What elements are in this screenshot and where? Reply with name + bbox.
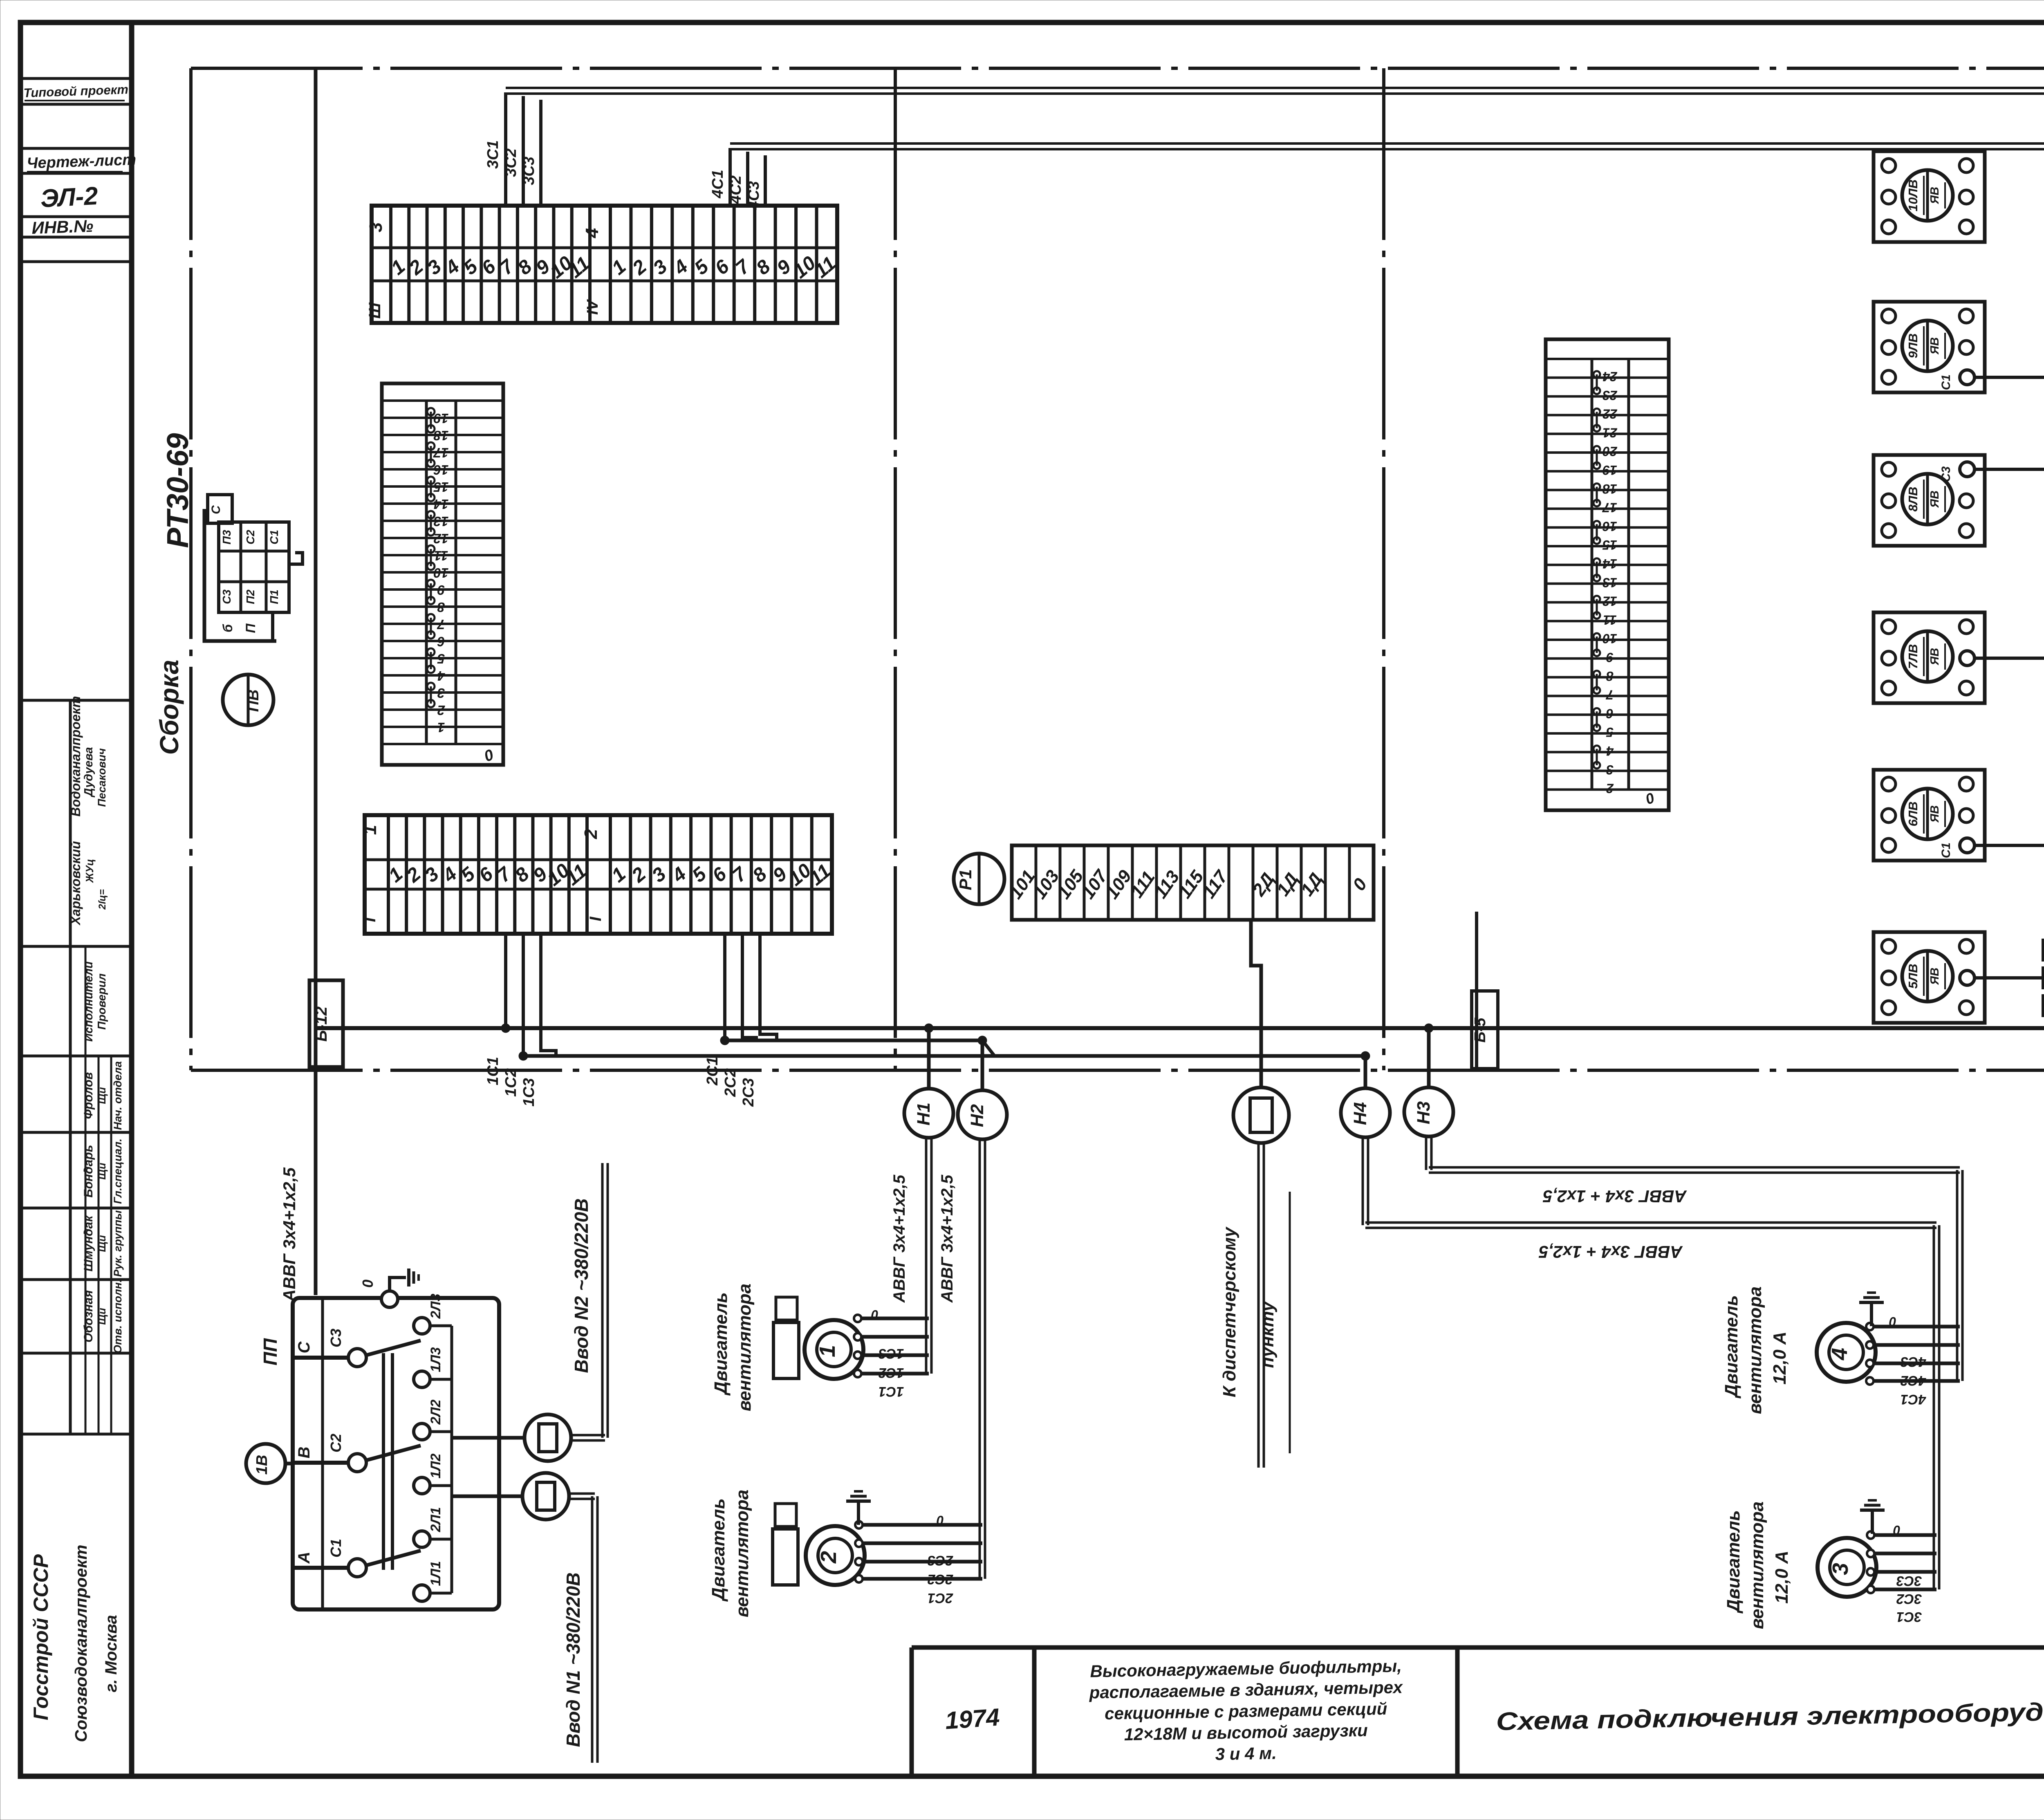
svg-text:2С3: 2С3 [740, 1078, 757, 1107]
svg-text:18: 18 [1602, 482, 1617, 496]
svg-text:6: 6 [1606, 706, 1614, 721]
svg-text:Отв. исполн.: Отв. исполн. [112, 1279, 124, 1353]
svg-text:5ЛВ: 5ЛВ [1906, 964, 1920, 989]
svg-text:9: 9 [437, 583, 445, 598]
svg-text:С: С [295, 1341, 313, 1353]
svg-text:АВВГ 3х4 + 1х2,5: АВВГ 3х4 + 1х2,5 [1539, 1242, 1683, 1262]
svg-text:вентилятора: вентилятора [732, 1490, 752, 1618]
svg-text:IV: IV [584, 299, 601, 315]
svg-text:20: 20 [1602, 444, 1618, 459]
svg-text:10: 10 [1602, 631, 1617, 646]
svg-text:4: 4 [437, 668, 445, 684]
svg-text:ЖУц: ЖУц [83, 859, 96, 883]
svg-text:3: 3 [437, 686, 445, 701]
svg-text:4: 4 [1827, 1348, 1852, 1361]
svg-text:С2: С2 [244, 530, 257, 545]
svg-text:Обозная: Обозная [82, 1290, 95, 1343]
svg-text:2С1: 2С1 [928, 1590, 953, 1606]
svg-text:С2: С2 [327, 1434, 344, 1452]
svg-text:Б-5: Б-5 [1472, 1018, 1489, 1043]
svg-text:Щи: Щи [96, 1163, 108, 1180]
svg-text:2С2: 2С2 [722, 1068, 739, 1097]
svg-text:3: 3 [1606, 762, 1614, 777]
svg-text:Гл.специал.: Гл.специал. [112, 1139, 124, 1204]
svg-text:Б-12: Б-12 [312, 1006, 330, 1042]
svg-text:2С3: 2С3 [928, 1553, 953, 1568]
svg-text:Проверил: Проверил [95, 973, 108, 1030]
svg-text:П2: П2 [244, 589, 257, 604]
svg-text:вентилятора: вентилятора [735, 1284, 755, 1412]
svg-text:19: 19 [1602, 463, 1617, 477]
svg-text:Ввод N2 ~380/220В: Ввод N2 ~380/220В [571, 1198, 592, 1373]
svg-text:Р1: Р1 [956, 869, 975, 890]
svg-text:АВВГ 3х4+1х2,5: АВВГ 3х4+1х2,5 [280, 1167, 299, 1302]
svg-text:Шмундак: Шмундак [82, 1215, 95, 1272]
svg-text:17: 17 [1602, 500, 1617, 515]
svg-text:19: 19 [433, 411, 448, 426]
svg-text:Госстрой СССР: Госстрой СССР [29, 1554, 52, 1720]
svg-text:Двигатель: Двигатель [711, 1292, 731, 1396]
svg-text:4С2: 4С2 [1901, 1373, 1926, 1388]
svg-text:АВВГ 3х4+1х2,5: АВВГ 3х4+1х2,5 [938, 1174, 956, 1303]
svg-text:24: 24 [1602, 369, 1618, 384]
svg-text:11: 11 [434, 548, 448, 563]
svg-text:7: 7 [1605, 688, 1614, 702]
svg-text:АВВГ 3х4+1х2,5: АВВГ 3х4+1х2,5 [890, 1174, 908, 1303]
svg-text:б: б [220, 624, 235, 632]
svg-text:ЭЛ-2: ЭЛ-2 [40, 182, 99, 213]
svg-text:3: 3 [1828, 1563, 1853, 1575]
svg-text:1: 1 [815, 1345, 840, 1357]
svg-text:1974: 1974 [944, 1703, 1001, 1734]
svg-text:1С2: 1С2 [879, 1365, 904, 1381]
svg-text:15: 15 [433, 480, 448, 495]
svg-text:П3: П3 [220, 530, 233, 545]
svg-text:С1: С1 [327, 1539, 344, 1558]
svg-text:С: С [209, 505, 223, 514]
svg-text:13: 13 [434, 514, 449, 529]
svg-text:12: 12 [1602, 594, 1617, 609]
svg-text:8ЛВ: 8ЛВ [1906, 487, 1920, 512]
svg-text:Нач. отдела: Нач. отдела [112, 1061, 124, 1130]
svg-text:ЯВ: ЯВ [1928, 491, 1941, 508]
svg-text:2С2: 2С2 [928, 1571, 953, 1587]
svg-text:5: 5 [1606, 725, 1614, 740]
svg-text:3 и 4 м.: 3 и 4 м. [1215, 1744, 1277, 1764]
svg-text:3С1: 3С1 [1896, 1609, 1922, 1625]
svg-text:П1: П1 [268, 589, 280, 604]
svg-text:0: 0 [937, 1513, 944, 1528]
svg-text:1Л3: 1Л3 [428, 1347, 444, 1372]
svg-text:Водоканалпроект: Водоканалпроект [68, 696, 83, 817]
svg-text:3С3: 3С3 [520, 157, 538, 185]
svg-text:2: 2 [581, 829, 601, 839]
svg-text:4С3: 4С3 [1901, 1354, 1926, 1369]
svg-text:2С1: 2С1 [704, 1057, 721, 1086]
svg-text:8: 8 [437, 600, 445, 615]
svg-text:0: 0 [1893, 1523, 1901, 1538]
svg-text:Ш: Ш [366, 303, 384, 319]
svg-text:1Л1: 1Л1 [428, 1561, 444, 1586]
svg-text:АВВГ 3х4 + 1х2,5: АВВГ 3х4 + 1х2,5 [1543, 1187, 1687, 1206]
svg-text:14: 14 [1602, 556, 1617, 571]
svg-text:7ЛВ: 7ЛВ [1906, 644, 1920, 669]
svg-text:Щи: Щи [96, 1087, 108, 1104]
svg-text:6: 6 [437, 634, 445, 649]
svg-text:7: 7 [437, 617, 445, 632]
svg-text:4С1: 4С1 [709, 170, 726, 199]
svg-text:21: 21 [1602, 425, 1618, 440]
svg-text:2ſц=: 2ſц= [97, 889, 108, 910]
svg-text:Щи: Щи [96, 1308, 108, 1325]
svg-text:23: 23 [1602, 388, 1618, 403]
svg-text:ЯВ: ЯВ [1928, 805, 1941, 823]
svg-text:С1: С1 [1939, 843, 1953, 858]
svg-text:П: П [243, 623, 258, 633]
svg-text:1С1: 1С1 [484, 1057, 502, 1085]
svg-text:2Л3: 2Л3 [428, 1293, 444, 1319]
svg-text:1С3: 1С3 [520, 1078, 538, 1107]
svg-text:Бондарь: Бондарь [82, 1145, 95, 1197]
svg-text:9ЛВ: 9ЛВ [1906, 334, 1920, 359]
svg-text:3: 3 [366, 222, 386, 232]
svg-text:12,0 А: 12,0 А [1770, 1331, 1790, 1385]
svg-text:ЯВ: ЯВ [1928, 648, 1941, 666]
svg-text:1С2: 1С2 [502, 1068, 520, 1097]
svg-text:Ввод N1 ~380/220В: Ввод N1 ~380/220В [563, 1572, 584, 1747]
svg-text:вентилятора: вентилятора [1747, 1502, 1767, 1629]
svg-text:Рук. группы: Рук. группы [112, 1210, 124, 1277]
svg-text:18: 18 [433, 428, 448, 443]
svg-text:22: 22 [1602, 407, 1618, 421]
svg-text:РТ30-69: РТ30-69 [161, 433, 195, 548]
svg-text:3С2: 3С2 [1896, 1591, 1922, 1607]
svg-text:9: 9 [1606, 650, 1614, 665]
svg-text:В: В [295, 1447, 313, 1459]
svg-text:3С3: 3С3 [1896, 1573, 1922, 1589]
svg-text:12: 12 [433, 531, 448, 546]
svg-text:Н2: Н2 [967, 1104, 987, 1127]
svg-text:6ЛВ: 6ЛВ [1906, 802, 1920, 827]
svg-text:ЯВ: ЯВ [1928, 187, 1941, 204]
svg-text:С1: С1 [268, 530, 280, 545]
svg-text:Двигатель: Двигатель [708, 1498, 728, 1602]
svg-text:К диспетчерскому: К диспетчерскому [1219, 1226, 1239, 1397]
svg-text:г. Москва: г. Москва [102, 1615, 120, 1692]
svg-text:14: 14 [434, 497, 449, 512]
svg-text:Щи: Щи [96, 1235, 108, 1252]
svg-text:I: I [587, 917, 605, 921]
svg-text:Сборка: Сборка [155, 660, 184, 755]
svg-text:Двигатель: Двигатель [1721, 1295, 1741, 1399]
svg-text:ПП: ПП [260, 1338, 281, 1365]
svg-text:10: 10 [433, 565, 448, 581]
svg-text:А: А [295, 1552, 313, 1564]
svg-text:С3: С3 [220, 589, 233, 604]
svg-text:С3: С3 [327, 1329, 344, 1347]
svg-text:1: 1 [437, 720, 445, 735]
svg-text:ЯВ: ЯВ [1928, 337, 1941, 355]
svg-text:ИНВ.№: ИНВ.№ [31, 216, 94, 238]
svg-text:ПВ: ПВ [245, 690, 262, 712]
svg-text:2Л2: 2Л2 [428, 1399, 444, 1425]
svg-text:ЯВ: ЯВ [1928, 968, 1941, 985]
svg-text:1Л2: 1Л2 [428, 1453, 444, 1478]
svg-text:0: 0 [871, 1307, 879, 1322]
svg-text:1С3: 1С3 [879, 1346, 904, 1361]
svg-text:Фролов: Фролов [82, 1072, 95, 1119]
svg-text:2: 2 [816, 1551, 841, 1564]
svg-text:11: 11 [1603, 612, 1616, 627]
svg-text:Н4: Н4 [1350, 1102, 1370, 1125]
svg-text:Н3: Н3 [1414, 1101, 1434, 1124]
svg-text:С1: С1 [1939, 374, 1953, 390]
svg-text:1С1: 1С1 [879, 1384, 904, 1399]
svg-text:1В: 1В [253, 1455, 271, 1475]
svg-text:Двигатель: Двигатель [1724, 1510, 1744, 1614]
svg-text:4: 4 [1606, 744, 1614, 758]
svg-text:0: 0 [1889, 1314, 1896, 1329]
svg-text:вентилятора: вентилятора [1745, 1287, 1765, 1414]
svg-text:16: 16 [433, 462, 448, 477]
svg-text:Дудуева: Дудуева [82, 747, 95, 798]
svg-text:пункту: пункту [1257, 1300, 1277, 1368]
svg-text:0: 0 [359, 1280, 376, 1288]
svg-text:Союзводоканалпроект: Союзводоканалпроект [72, 1544, 90, 1742]
svg-text:12,0 А: 12,0 А [1772, 1551, 1792, 1604]
svg-text:I: I [361, 917, 379, 922]
svg-text:10ЛВ: 10ЛВ [1906, 179, 1920, 211]
svg-text:3С2: 3С2 [502, 148, 520, 177]
svg-text:2Л1: 2Л1 [428, 1507, 444, 1532]
svg-text:Песакович: Песакович [96, 748, 108, 807]
svg-text:Исполнители: Исполнители [82, 962, 95, 1042]
svg-text:2: 2 [437, 703, 445, 718]
svg-text:4: 4 [582, 228, 602, 238]
svg-text:3С1: 3С1 [484, 140, 502, 169]
svg-text:5: 5 [437, 651, 445, 666]
svg-text:Н1: Н1 [914, 1103, 934, 1125]
svg-text:1: 1 [360, 825, 380, 835]
svg-text:8: 8 [1606, 669, 1614, 684]
svg-text:2: 2 [1606, 781, 1614, 796]
svg-text:4С2: 4С2 [727, 175, 744, 204]
svg-text:Харьковский: Харьковский [68, 841, 83, 926]
svg-text:4С1: 4С1 [1901, 1392, 1926, 1407]
svg-text:16: 16 [1602, 519, 1617, 533]
svg-text:13: 13 [1602, 575, 1617, 590]
svg-text:15: 15 [1602, 538, 1617, 552]
